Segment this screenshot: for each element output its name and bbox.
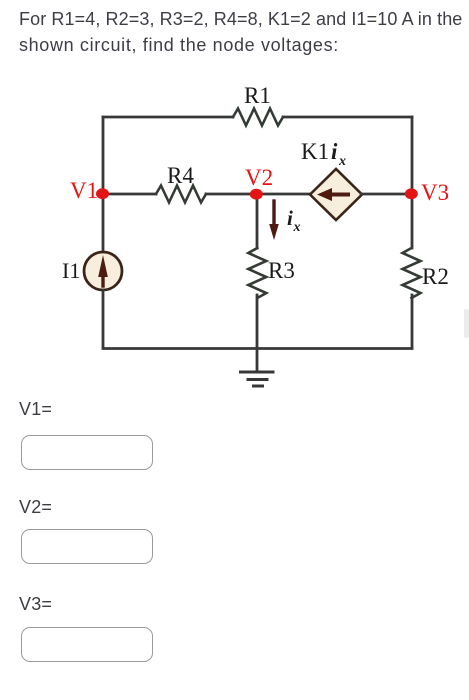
wire: top wire right segment [283,116,412,119]
svg-text:R1: R1 [244,83,271,108]
node V2 [245,165,273,200]
svg-text:V2: V2 [245,165,273,190]
form label V2= [19,497,52,518]
wire: R3 to bottom wire [256,295,259,348]
wire: top-left vertical (V1 up to top wire) [102,117,105,194]
scrollbar remnant [464,309,469,338]
node V3 [405,180,449,205]
svg-text:R2: R2 [422,264,449,289]
resistor R3 [248,248,295,298]
input box V2 [21,529,153,564]
wire: bottom wire [103,347,412,350]
svg-text:V1: V1 [70,178,98,203]
wire: left vertical I1 to bottom [102,290,105,348]
svg-text:R3: R3 [268,258,295,283]
svg-text:R4: R4 [167,163,194,188]
svg-text:V3: V3 [421,180,449,205]
svg-text:i: i [331,139,338,164]
wire: middle wire diamond to V3 [361,193,412,196]
resistor R1 [233,83,283,126]
wire: right vertical R2 to bottom [411,295,414,348]
resistor R2 [403,248,449,298]
form label V1= [19,399,52,420]
form label V3= [19,594,52,615]
node V1 [70,178,109,203]
input box V1 [21,435,153,470]
svg-text:i: i [287,206,293,230]
question text [19,7,464,58]
wire: R3 branch V2 down [256,194,259,248]
wire: left vertical V1 to I1 [102,194,105,252]
current source I1 [62,252,122,290]
svg-text:x: x [293,220,301,235]
wire: middle wire V1 to R4 [103,193,156,196]
wire: middle wire R4 to diamond [206,193,311,196]
dependent source K1ix (diamond) [301,139,362,220]
wire: right vertical upper (top wire down to R2) [411,117,414,248]
resistor R4 [156,163,206,203]
svg-text:K1: K1 [301,139,329,164]
current arrow ix [269,201,300,240]
input box V3 [21,627,153,662]
wire: top wire left segment [103,116,233,119]
svg-text:x: x [338,154,346,169]
svg-text:I1: I1 [62,258,80,283]
ground [241,348,274,386]
